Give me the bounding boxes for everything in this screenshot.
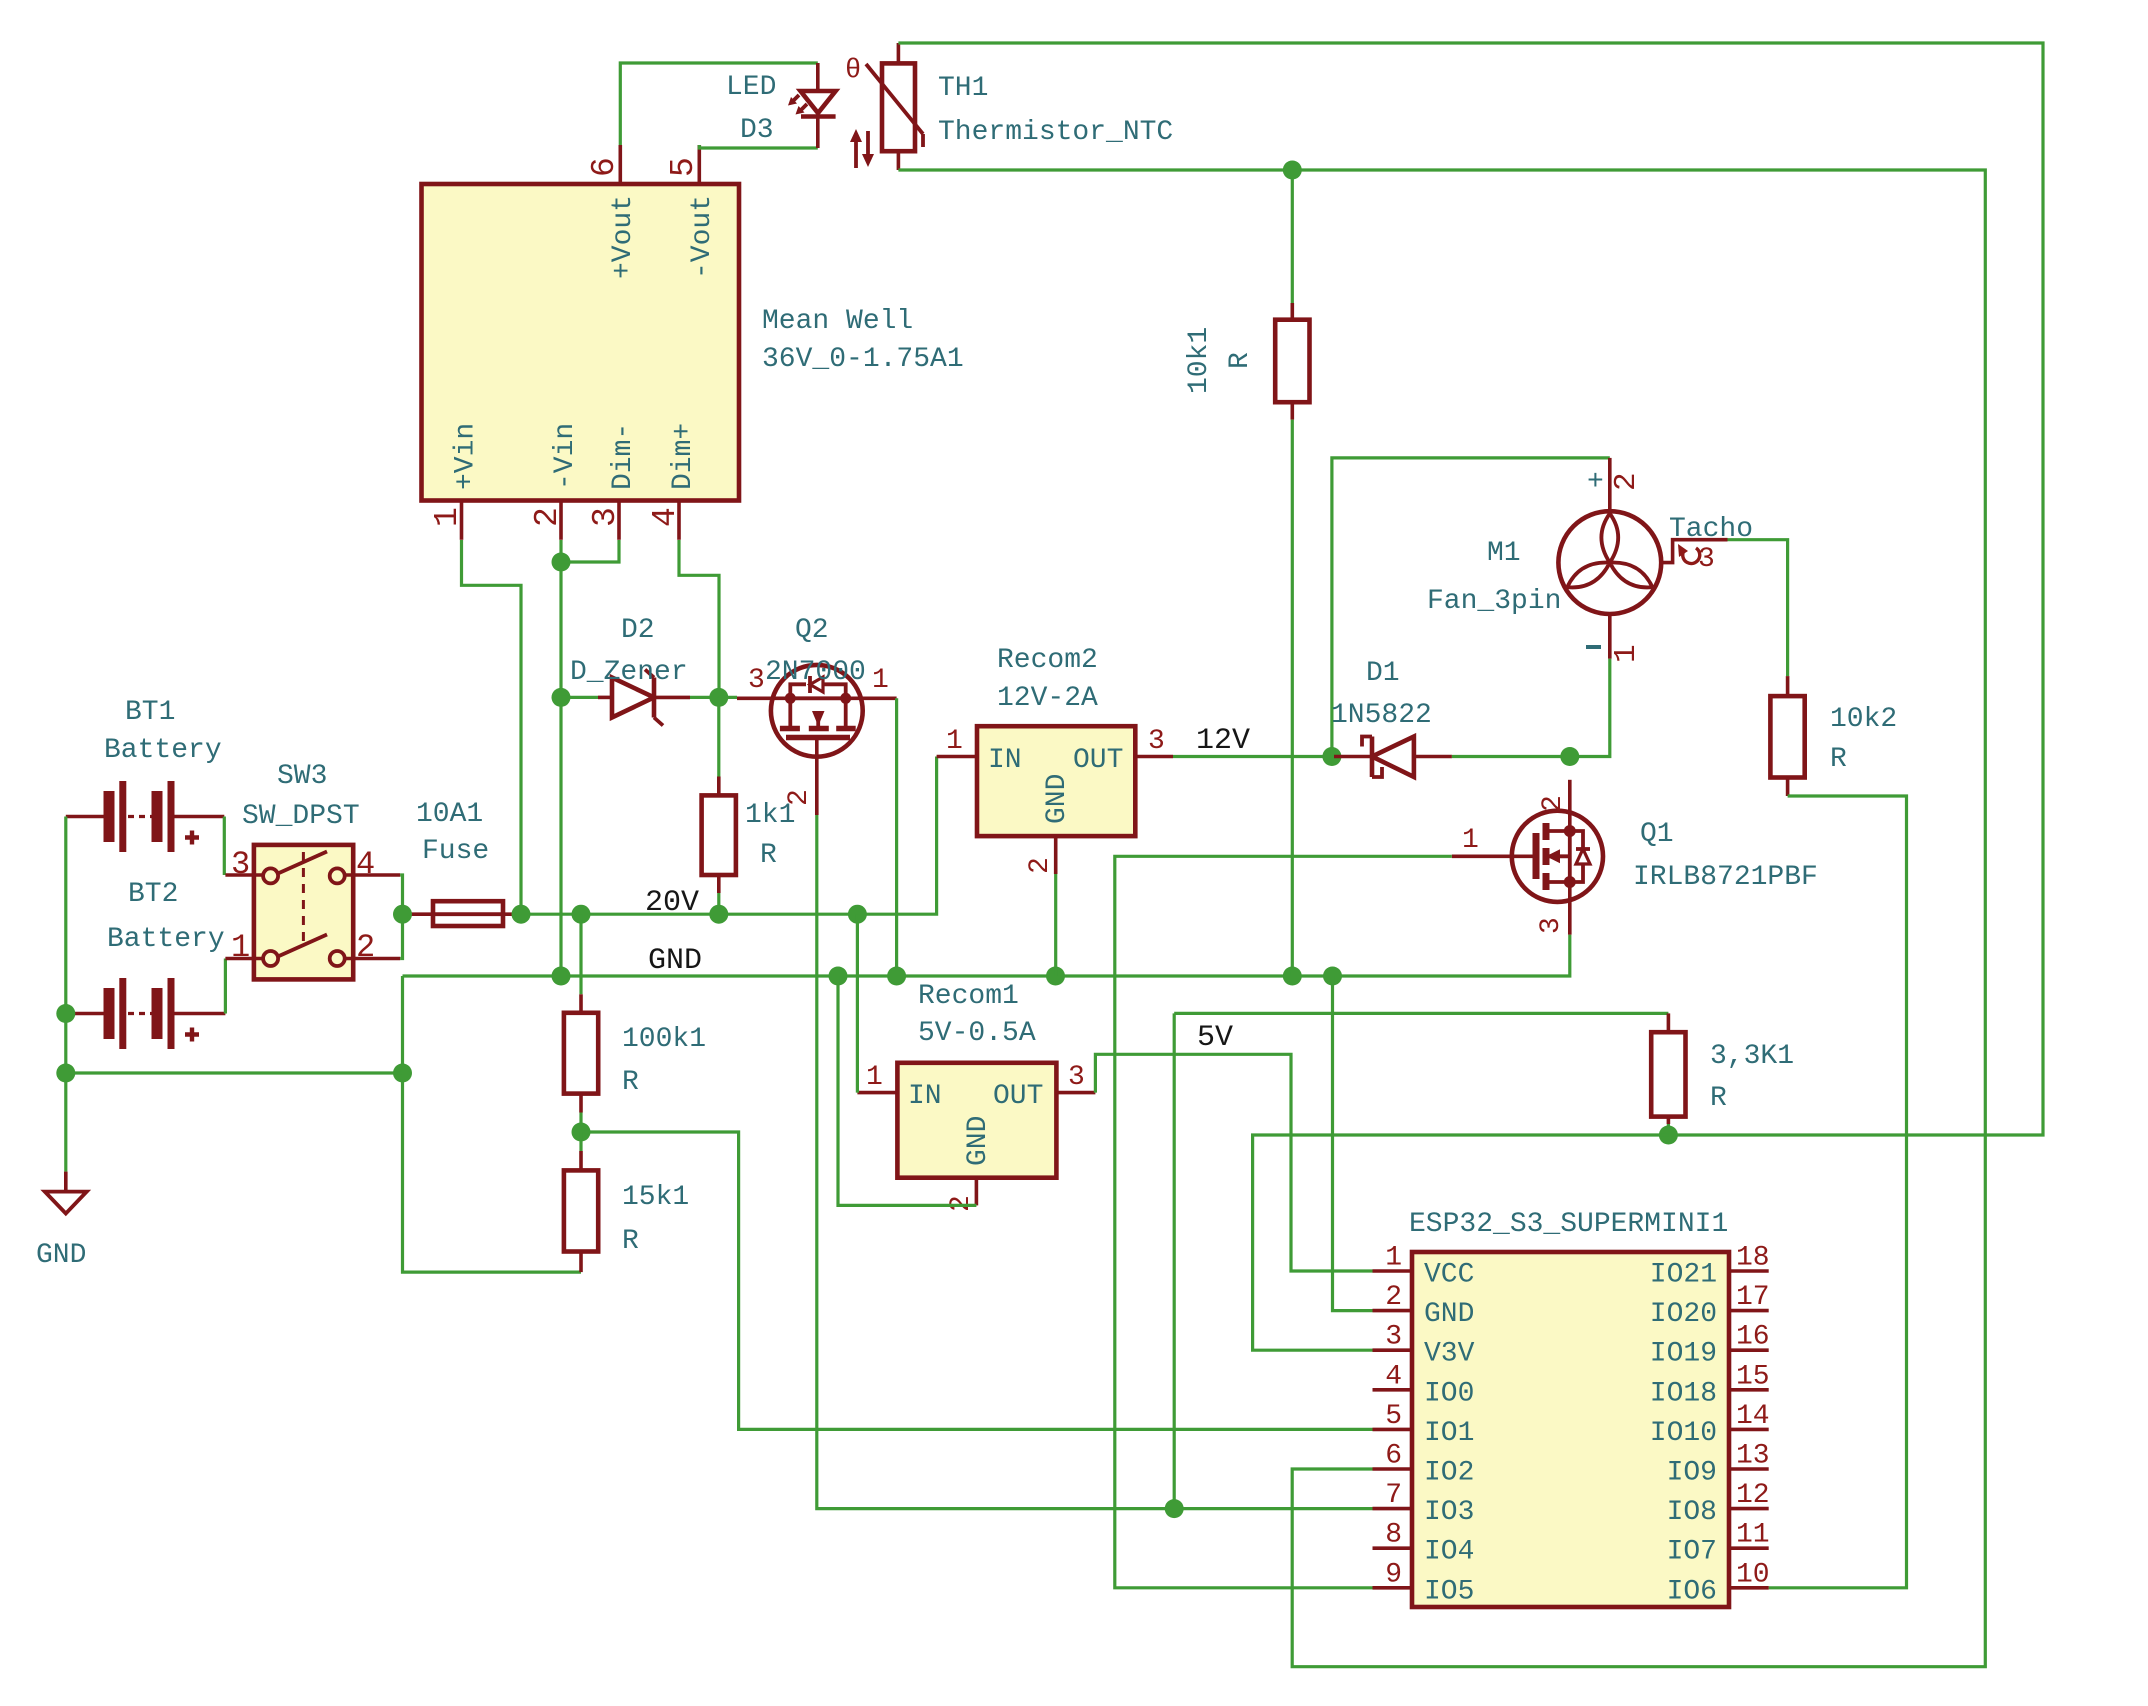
svg-text:OUT: OUT [993, 1081, 1043, 1112]
wire Q2 drain down to GND rail [895, 698, 898, 976]
pin 5 -Vout of Mean Well [665, 145, 718, 279]
pin 2 GND of Recom1 [946, 1116, 994, 1212]
svg-text:2: 2 [1385, 1282, 1402, 1313]
svg-text:IO5: IO5 [1424, 1576, 1474, 1607]
svg-text:GND: GND [648, 944, 702, 978]
wire zener cathode to gate node [690, 696, 719, 699]
junction 12Vsw Q1 drain [1560, 747, 1579, 766]
pin 2 -Vin of Mean Well [529, 423, 581, 540]
svg-text:1: 1 [946, 726, 963, 757]
svg-text:9: 9 [1385, 1559, 1402, 1590]
wire Recom1 IN riser to 20V [856, 914, 859, 1092]
junction GND Recom2 pin2 [1046, 967, 1065, 986]
pin 7 IO3 of ESP32 [1373, 1480, 1475, 1528]
wire Tacho to 10k2 [1728, 540, 1788, 676]
resistor 3,3K1 [1174, 1013, 1685, 1135]
svg-text:SW3: SW3 [277, 761, 327, 792]
svg-text:4: 4 [647, 507, 684, 527]
pin 17 IO20 of ESP32 [1650, 1282, 1770, 1330]
svg-text:1: 1 [1609, 644, 1644, 663]
pin 2 GND of Recom2 [1025, 774, 1073, 874]
svg-text:1: 1 [231, 929, 250, 966]
LED D3 [788, 63, 836, 148]
svg-text:+: + [1587, 467, 1604, 498]
svg-text:3: 3 [748, 665, 765, 696]
svg-text:IO2: IO2 [1424, 1458, 1474, 1489]
svg-text:1N5822: 1N5822 [1331, 700, 1432, 731]
svg-text:Q2: Q2 [795, 615, 829, 646]
svg-text:IO4: IO4 [1424, 1537, 1474, 1568]
resistor 1k1 [702, 697, 736, 914]
svg-text:5: 5 [665, 157, 702, 177]
svg-text:3: 3 [587, 507, 624, 527]
svg-text:6: 6 [1385, 1441, 1402, 1472]
switch SW3 body [254, 845, 353, 980]
svg-text:Recom2: Recom2 [997, 645, 1098, 676]
svg-text:IO20: IO20 [1650, 1299, 1717, 1330]
pin 1 IN of Recom2 [937, 726, 1022, 776]
ground symbol GND [45, 1172, 87, 1214]
junction GND Q2 drain [887, 967, 906, 986]
svg-text:Battery: Battery [104, 735, 222, 766]
svg-text:36V_0-1.75A1: 36V_0-1.75A1 [762, 344, 964, 375]
wire -Vin down to GND rail [559, 540, 562, 976]
wire D1 cathode to fan minus [1452, 659, 1610, 757]
wire TH1 bottom net to right side [898, 170, 1985, 1667]
svg-text:Q1: Q1 [1640, 819, 1674, 850]
junction battery return [393, 1064, 412, 1083]
junction gate node Q2 [709, 688, 728, 707]
svg-text:2: 2 [1025, 857, 1056, 874]
svg-text:D_Zener: D_Zener [570, 657, 688, 688]
thermistor TH1 [845, 43, 923, 170]
svg-text:1: 1 [1385, 1243, 1402, 1274]
pin 6 +Vout of Mean Well [586, 145, 639, 279]
svg-text:IO1: IO1 [1424, 1418, 1474, 1449]
svg-text:R: R [1225, 352, 1256, 369]
pin 8 IO4 of ESP32 [1373, 1520, 1475, 1568]
svg-text:17: 17 [1736, 1282, 1770, 1313]
junction 20V +Vin [512, 905, 531, 924]
svg-text:IRLB8721PBF: IRLB8721PBF [1633, 862, 1818, 893]
svg-text:D1: D1 [1366, 658, 1400, 689]
svg-text:3: 3 [1385, 1322, 1402, 1353]
svg-text:12: 12 [1736, 1480, 1770, 1511]
svg-text:Battery: Battery [107, 924, 225, 955]
svg-text:11: 11 [1736, 1520, 1770, 1551]
resistor 100k1 [564, 914, 598, 1132]
pin 3 V3V of ESP32 [1373, 1322, 1475, 1370]
svg-text:R: R [622, 1067, 639, 1098]
svg-text:IO6: IO6 [1667, 1576, 1717, 1607]
pin 6 IO2 of ESP32 [1373, 1441, 1475, 1489]
microcontroller ESP32_S3_SUPERMINI1 body [1412, 1252, 1729, 1607]
resistor 10k1 [1275, 170, 1309, 976]
svg-text:20V: 20V [645, 886, 699, 920]
resistor 10k2 [1770, 676, 1804, 796]
svg-text:5: 5 [1385, 1401, 1402, 1432]
switch SW3 contacts and levers [225, 852, 400, 967]
svg-text:10k2: 10k2 [1830, 704, 1897, 735]
junction GND Recom1 return [829, 967, 848, 986]
svg-text:D2: D2 [621, 615, 655, 646]
svg-text:M1: M1 [1487, 538, 1521, 569]
svg-text:3: 3 [231, 846, 250, 883]
motor M1 fan [1558, 458, 1727, 659]
junction 20V Recom1 IN riser [848, 905, 867, 924]
svg-text:2: 2 [946, 1195, 977, 1212]
wire GND rail [403, 935, 1570, 976]
svg-text:+Vin: +Vin [451, 423, 482, 490]
svg-text:R: R [1830, 744, 1847, 775]
svg-text:IO8: IO8 [1667, 1497, 1717, 1528]
diode D1 1N5822 [1334, 737, 1452, 778]
svg-text:θ: θ [845, 56, 861, 86]
svg-text:5V: 5V [1197, 1021, 1233, 1055]
svg-text:Fan_3pin: Fan_3pin [1427, 586, 1561, 617]
svg-text:3,3K1: 3,3K1 [1710, 1041, 1794, 1072]
svg-text:LED: LED [726, 72, 776, 103]
svg-text:-Vout: -Vout [687, 195, 718, 279]
pin 2 GND of ESP32 [1373, 1282, 1475, 1330]
wire gate node to Q2 [719, 696, 737, 699]
pin 10 IO6 of ESP32 [1667, 1559, 1770, 1607]
transistor Q1 IRLB8721PBF [1452, 780, 1603, 935]
junction 3,3K1 bottom [1659, 1126, 1678, 1145]
pin 4 IO0 of ESP32 [1373, 1361, 1475, 1409]
pin 11 IO7 of ESP32 [1667, 1520, 1770, 1568]
svg-text:6: 6 [586, 157, 623, 177]
wire Dim+ down to zener node [679, 540, 719, 697]
svg-text:D3: D3 [740, 115, 774, 146]
svg-text:Mean Well: Mean Well [762, 306, 913, 337]
junction -Vin pin3 node [552, 553, 571, 572]
junction divider output [572, 1123, 591, 1142]
transistor Q2 2N7000 [737, 665, 897, 815]
wire V3V riser [1253, 1135, 1669, 1350]
wire battery return riser [403, 976, 582, 1272]
svg-text:TH1: TH1 [938, 73, 988, 104]
pin 1 +Vin of Mean Well [429, 423, 482, 540]
svg-text:Thermistor_NTC: Thermistor_NTC [938, 117, 1173, 148]
wire Q1 gate to IO5 [1115, 856, 1452, 1588]
svg-text:Dim+: Dim+ [668, 423, 699, 490]
svg-text:7: 7 [1385, 1480, 1402, 1511]
pin 12 IO8 of ESP32 [1667, 1480, 1770, 1528]
pin 18 IO21 of ESP32 [1650, 1243, 1770, 1291]
svg-text:100k1: 100k1 [622, 1024, 706, 1055]
pin 3 Dim- of Mean Well [587, 423, 639, 540]
junction GND 10k1 [1283, 967, 1302, 986]
svg-text:IO19: IO19 [1650, 1339, 1717, 1370]
wire 20V rail [521, 757, 937, 915]
svg-text:Dim-: Dim- [608, 423, 639, 490]
svg-text:+Vout: +Vout [608, 195, 639, 279]
svg-text:IO9: IO9 [1667, 1458, 1717, 1489]
svg-text:10: 10 [1736, 1559, 1770, 1590]
wire Recom1 GND return [838, 976, 976, 1205]
pin label M1 minus [1586, 645, 1601, 649]
svg-text:IN: IN [988, 745, 1022, 776]
junction TH1 bottom at 10k1 [1283, 161, 1302, 180]
pin 15 IO18 of ESP32 [1650, 1361, 1770, 1409]
wire divider output to IO1 [581, 1132, 1373, 1429]
svg-text:15k1: 15k1 [622, 1182, 689, 1213]
fuse 10A1 [403, 901, 522, 926]
svg-text:Fuse: Fuse [422, 836, 489, 867]
svg-text:1: 1 [866, 1062, 883, 1093]
svg-text:12V: 12V [1196, 724, 1250, 758]
svg-text:R: R [760, 840, 777, 871]
junction GND -Vin [552, 967, 571, 986]
svg-text:10A1: 10A1 [416, 799, 483, 830]
wire +Vin down to 20V rail [462, 540, 522, 914]
svg-text:V3V: V3V [1424, 1339, 1475, 1370]
wire TH1 top net [898, 43, 2043, 1135]
wire 12V up to fan plus [1332, 458, 1610, 757]
wire Q2 source down to IO3 line [817, 815, 1373, 1509]
junction 12V D1 anode [1322, 747, 1341, 766]
wire battery left vertical [64, 817, 67, 1172]
svg-text:IO18: IO18 [1650, 1378, 1717, 1409]
pin 3 OUT of Recom1 [993, 1062, 1095, 1112]
pin 9 IO5 of ESP32 [1373, 1559, 1475, 1607]
svg-text:1: 1 [1462, 825, 1479, 856]
svg-text:GND: GND [963, 1116, 994, 1166]
svg-text:15: 15 [1736, 1361, 1770, 1392]
svg-text:18: 18 [1736, 1243, 1770, 1274]
svg-text:12V-2A: 12V-2A [997, 683, 1098, 714]
pin number M1-3 with rotation arrow [1678, 544, 1715, 575]
pin 3 OUT of Recom2 [1073, 726, 1173, 776]
svg-text:14: 14 [1736, 1401, 1770, 1432]
wire switch pins 2-4 to fuse node [400, 875, 402, 959]
svg-text:IO0: IO0 [1424, 1378, 1474, 1409]
wire BT2 plus to switch pin1 [224, 959, 227, 1014]
power module Mean Well body [422, 184, 740, 501]
svg-text:10k1: 10k1 [1184, 327, 1215, 394]
battery BT2 [66, 978, 226, 1049]
svg-text:2: 2 [1538, 795, 1569, 812]
svg-text:4: 4 [1385, 1361, 1402, 1392]
svg-text:GND: GND [1424, 1299, 1474, 1330]
svg-text:3: 3 [1148, 726, 1165, 757]
svg-text:1: 1 [429, 507, 466, 527]
regulator Recom2 body [977, 726, 1135, 836]
wire Dim- to -Vin [561, 540, 619, 562]
svg-text:3: 3 [1698, 544, 1715, 575]
svg-text:IO7: IO7 [1667, 1537, 1717, 1568]
pin 16 IO19 of ESP32 [1650, 1322, 1770, 1370]
svg-text:-Vin: -Vin [550, 423, 581, 490]
svg-text:SW_DPST: SW_DPST [242, 801, 360, 832]
junction 20V 1k1 [709, 905, 728, 924]
svg-text:2: 2 [1609, 472, 1644, 491]
wire 3,3K1 top riser to IO3 [1173, 1013, 1176, 1508]
wire BT1 plus to switch pin3 [223, 817, 226, 876]
regulator Recom1 body [897, 1063, 1056, 1178]
svg-text:GND: GND [1042, 774, 1073, 824]
wire battery return horizontal [66, 1071, 403, 1074]
svg-text:2: 2 [529, 507, 566, 527]
wire 12V rail [1173, 755, 1334, 758]
svg-text:IO3: IO3 [1424, 1497, 1474, 1528]
svg-text:1k1: 1k1 [745, 800, 795, 831]
svg-text:16: 16 [1736, 1322, 1770, 1353]
junction battery left return [56, 1064, 75, 1083]
svg-text:1: 1 [872, 665, 889, 696]
svg-text:IN: IN [908, 1081, 942, 1112]
wire GND riser to ESP32 [1333, 976, 1373, 1311]
junction GND ESP32 riser [1323, 967, 1342, 986]
svg-text:ESP32_S3_SUPERMINI1: ESP32_S3_SUPERMINI1 [1409, 1209, 1728, 1240]
svg-text:2N7000: 2N7000 [765, 657, 866, 688]
svg-text:2: 2 [356, 929, 375, 966]
svg-text:R: R [1710, 1083, 1727, 1114]
svg-text:OUT: OUT [1073, 745, 1123, 776]
wire +Vout to LED anode [620, 63, 818, 145]
svg-text:IO21: IO21 [1650, 1260, 1717, 1291]
pin 5 IO1 of ESP32 [1373, 1401, 1475, 1449]
wire 5V net to VCC [1095, 1054, 1372, 1271]
resistor 15k1 [564, 1132, 598, 1272]
pin 14 IO10 of ESP32 [1650, 1401, 1770, 1449]
svg-text:R: R [622, 1226, 639, 1257]
battery BT1 [66, 781, 225, 852]
svg-text:GND: GND [36, 1240, 86, 1271]
svg-text:4: 4 [356, 846, 375, 883]
junction 20V 100k1 [572, 905, 591, 924]
svg-text:13: 13 [1736, 1441, 1770, 1472]
wire Recom2 GND to rail [1054, 874, 1057, 976]
svg-text:3: 3 [1536, 917, 1567, 934]
diode D2 zener [598, 670, 690, 726]
pin 1 IN of Recom1 [857, 1062, 941, 1112]
svg-text:8: 8 [1385, 1520, 1402, 1551]
wire 10k2 bottom to IO6 [1769, 796, 1907, 1588]
junction IO3 riser [1165, 1499, 1184, 1518]
svg-text:BT2: BT2 [128, 879, 178, 910]
pin 4 Dim+ of Mean Well [647, 423, 699, 540]
svg-text:BT1: BT1 [125, 697, 175, 728]
svg-text:5V-0.5A: 5V-0.5A [918, 1018, 1036, 1049]
svg-text:Recom1: Recom1 [918, 981, 1019, 1012]
svg-text:IO10: IO10 [1650, 1418, 1717, 1449]
pin 1 VCC of ESP32 [1373, 1243, 1475, 1291]
svg-text:3: 3 [1068, 1062, 1085, 1093]
pin 13 IO9 of ESP32 [1667, 1441, 1770, 1489]
wire zener anode [561, 696, 598, 699]
wire LED cathode to -Vout [699, 145, 818, 148]
junction zener anode node [552, 688, 571, 707]
junction battery left BT2 [56, 1004, 75, 1023]
svg-text:VCC: VCC [1424, 1260, 1474, 1291]
junction 20V fuse-switch [393, 905, 412, 924]
